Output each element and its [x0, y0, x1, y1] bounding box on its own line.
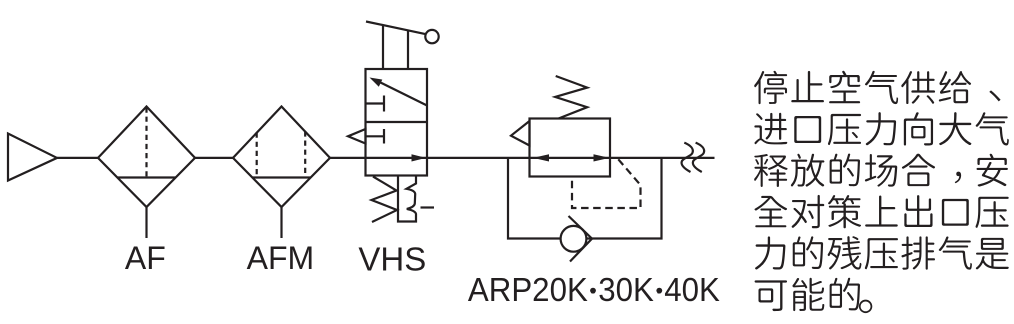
filter AF drain line [145, 207, 147, 238]
VHS detent dash [421, 206, 435, 208]
AFM drain line [280, 207, 282, 238]
VHS lever stem left [382, 25, 384, 69]
regulator ARP body [530, 119, 611, 177]
VHS lever knob circle [425, 30, 438, 43]
note text line 6: 可能的。 [755, 278, 873, 313]
VHS top square blocked port T [366, 102, 385, 104]
svg-text:AF: AF [125, 240, 166, 276]
VHS flow arrowhead [412, 154, 427, 161]
check valve circle [561, 226, 587, 252]
VHS body divider [366, 121, 428, 123]
note text line 5: 力的残压排气是 [755, 236, 1009, 270]
filter AF bowl chord [118, 176, 176, 178]
note text line 1: 停止空气供给、 [754, 71, 1000, 104]
svg-text:VHS: VHS [358, 240, 426, 277]
ARP pilot dashed line [572, 159, 641, 208]
wire AF to AFM [195, 157, 233, 159]
valve VHS body [366, 69, 428, 176]
AFM element dashed line left [256, 133, 258, 178]
AFM element dashed line right [304, 131, 306, 177]
VHS detent [398, 177, 416, 222]
ARP relief triangle [511, 121, 530, 146]
note text line 3: 释放的场合，安 [754, 154, 1008, 187]
VHS exhaust triangle [348, 129, 366, 144]
AFM bowl chord [253, 176, 311, 178]
wire AFM through VHS and ARP to outlet [330, 157, 715, 159]
mist separator AFM diamond [233, 107, 330, 208]
filter AF element dashed line [145, 108, 147, 178]
VHS bottom square blocked port T [366, 135, 385, 137]
ARP adjustment spring [555, 76, 587, 119]
filter AF diamond [98, 107, 195, 208]
air supply source triangle [8, 134, 57, 181]
outlet break mark 1 [682, 143, 693, 172]
VHS lever arm [366, 22, 425, 35]
wire source to AF filter [57, 157, 98, 159]
note text line 4: 全对策上出口压 [755, 195, 1009, 228]
label middle dot 1 [590, 288, 596, 294]
outlet break mark 2 [693, 143, 704, 172]
VHS lever stem right [407, 30, 409, 69]
ARP flow arrowhead left [533, 154, 549, 161]
VHS return spring [372, 177, 398, 223]
note text line 2: 进口压力向大气 [754, 112, 1008, 145]
ARP flow arrowhead right [594, 154, 610, 161]
check valve seat [569, 216, 593, 262]
label middle dot 2 [656, 288, 662, 294]
VHS top square arrow [376, 80, 427, 105]
bypass line [508, 158, 662, 239]
svg-text:AFM: AFM [247, 240, 315, 276]
